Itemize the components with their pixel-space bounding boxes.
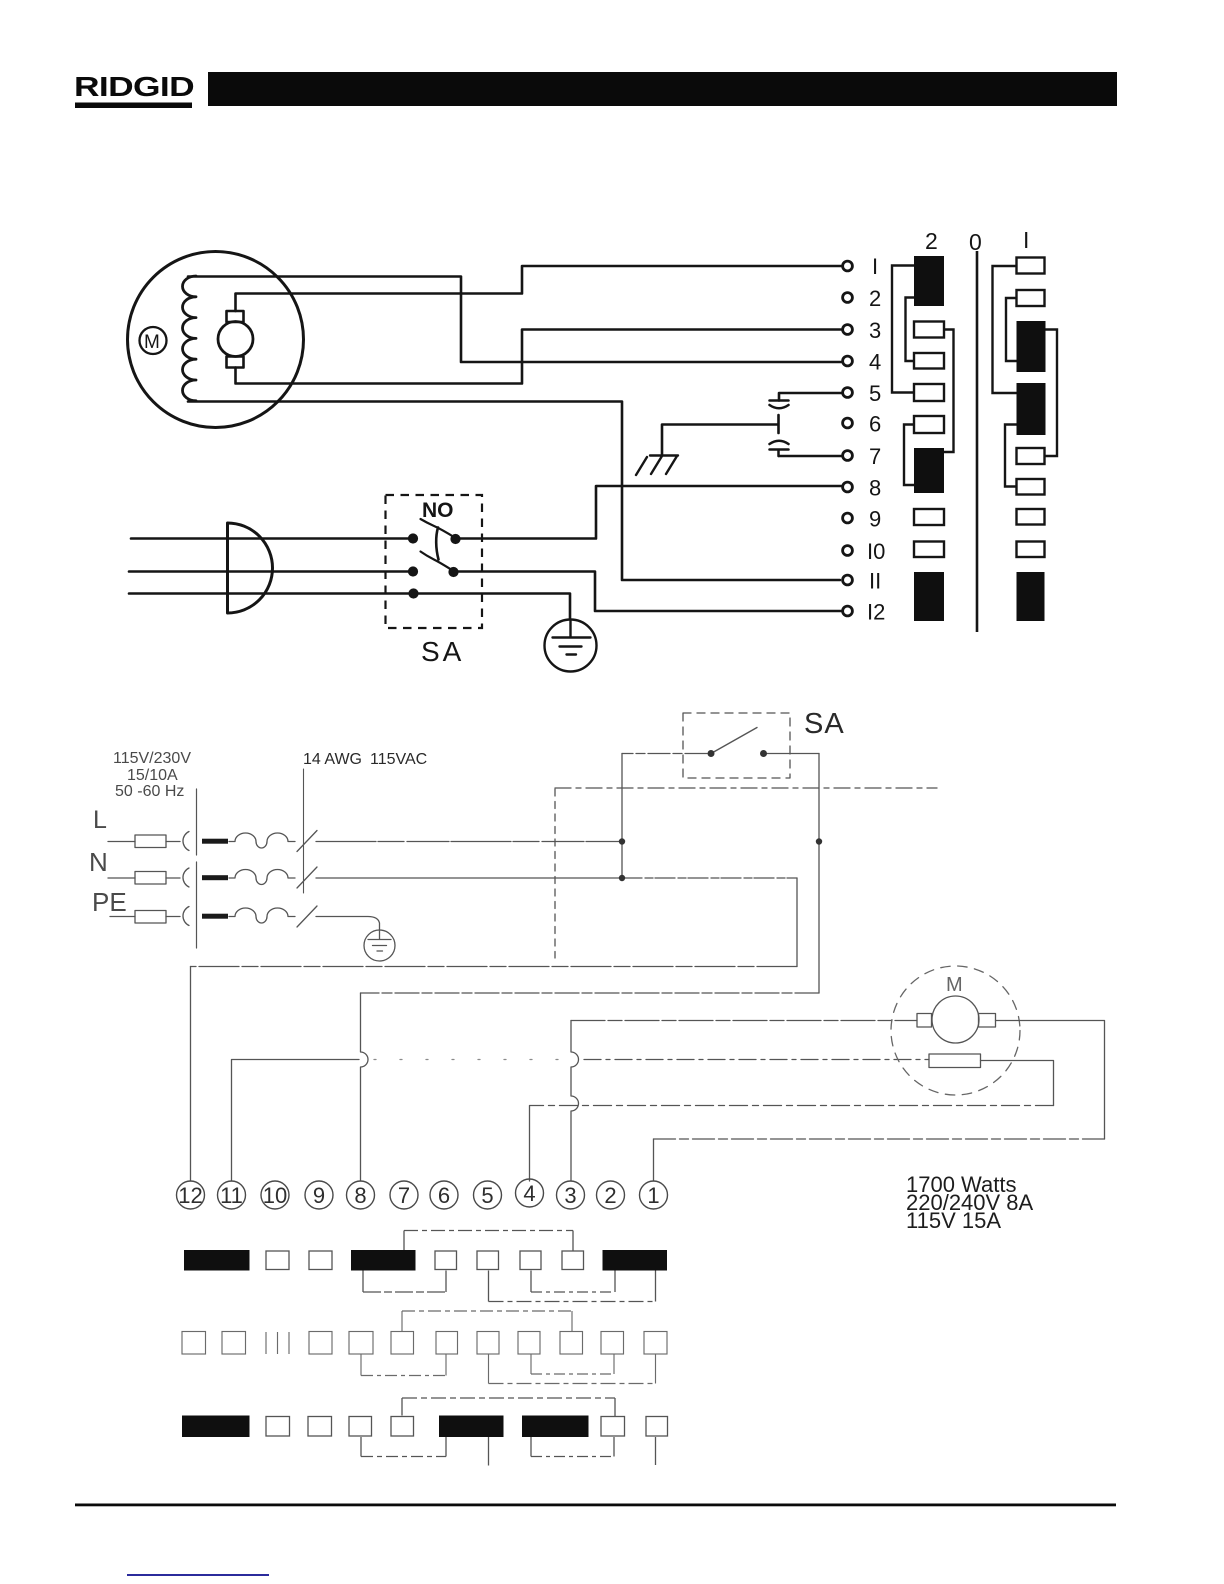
switch pole1 contacts	[409, 535, 417, 543]
svg-text:115V 15A: 115V 15A	[906, 1208, 1001, 1233]
cord coil L	[229, 833, 295, 848]
SA box lower dashed	[683, 713, 790, 778]
terminal point 11	[843, 575, 853, 585]
block2 pad 3	[914, 322, 944, 338]
svg-text:II: II	[869, 569, 881, 594]
svg-text:14 AWG: 14 AWG	[303, 751, 362, 768]
svg-text:8: 8	[869, 476, 881, 501]
svg-text:11: 11	[220, 1183, 243, 1208]
block2 pad 6	[914, 416, 944, 433]
rowA pad 4	[520, 1251, 541, 1270]
rowB jumper 4to2	[531, 1354, 614, 1374]
terminal point 2	[843, 293, 853, 303]
rowA jumper 7to3 top	[404, 1231, 573, 1252]
rowA jumper 4to2	[531, 1271, 615, 1293]
wire PE to earth	[129, 594, 570, 620]
svg-text:M: M	[946, 974, 963, 996]
svg-text:M: M	[144, 332, 160, 353]
brush left lower	[917, 1014, 932, 1028]
fuse L	[108, 841, 135, 843]
enclosure dash vertical	[554, 789, 556, 958]
svg-text:4: 4	[523, 1181, 535, 1206]
circle 12	[177, 1181, 205, 1209]
svg-text:PE: PE	[92, 887, 127, 917]
TERMINAL STRIP ROW C	[182, 1416, 668, 1438]
wire capacitor C2 to terminal 7	[779, 455, 841, 458]
header bar	[208, 72, 1117, 106]
SA output vertical	[818, 754, 820, 994]
rowC pad 8	[349, 1417, 372, 1437]
wire loop to circle1	[654, 1138, 1105, 1140]
UPPER DIAGRAM	[128, 252, 843, 672]
block2 jumper 3-7	[944, 330, 954, 453]
block1 pads 3-4 black	[1017, 321, 1046, 372]
block2 pad 9	[914, 509, 944, 525]
capacitor C1	[770, 401, 789, 409]
terminal point 5	[843, 388, 853, 398]
svg-text:2: 2	[604, 1183, 616, 1208]
block1 pad 10	[1017, 542, 1045, 558]
plug body	[228, 523, 273, 613]
svg-text:I0: I0	[867, 539, 885, 564]
rowA jumper 8to6	[363, 1271, 446, 1293]
wire L into switch	[131, 537, 411, 540]
rowB jumper 5to1	[489, 1354, 656, 1384]
block2 jumper 6-8	[904, 425, 914, 486]
slash PE	[297, 906, 317, 927]
brush bottom	[227, 357, 244, 368]
armature circle	[218, 322, 253, 357]
svg-text:12: 12	[178, 1183, 202, 1208]
socket separation line	[196, 789, 198, 948]
rowC stub 5	[488, 1437, 490, 1466]
svg-text:I: I	[872, 254, 878, 279]
RIGHT CONNECTOR COLUMN (1)	[993, 258, 1058, 622]
svg-text:5: 5	[481, 1183, 493, 1208]
armature lower	[932, 996, 979, 1043]
RIDGID logo	[74, 71, 194, 108]
circle 10	[261, 1181, 289, 1209]
motor M label circle	[140, 327, 167, 354]
terminal numbers	[867, 254, 885, 625]
svg-text:SA: SA	[804, 708, 845, 740]
svg-text:1: 1	[647, 1183, 659, 1208]
cord coil PE	[229, 908, 295, 923]
switch SA dashed box	[386, 495, 483, 628]
switch pole1 blade	[421, 519, 456, 538]
SA switch blade lower	[711, 728, 757, 754]
terminal point 6	[843, 418, 853, 428]
choke left with hop	[361, 993, 369, 1181]
wire field loop bottom	[530, 1105, 1054, 1107]
rowA pads 12-11 black	[184, 1250, 250, 1271]
circle 4	[516, 1179, 544, 1207]
fuse N	[108, 877, 135, 879]
brush right lower	[979, 1014, 996, 1028]
SA contact left lower	[708, 750, 715, 757]
plug pin L	[202, 839, 228, 844]
wire coil-bottom to terminal 11	[188, 402, 840, 581]
svg-text:NO: NO	[422, 499, 454, 522]
block1 pads 5-6 black	[1017, 383, 1046, 435]
SA wire left	[622, 753, 707, 755]
cable marker line	[303, 769, 305, 893]
circle 1	[640, 1181, 668, 1209]
earth ground circle	[545, 620, 597, 672]
bottom rule	[75, 1504, 1116, 1507]
svg-text:RIDGID: RIDGID	[74, 71, 194, 102]
SA wire right	[764, 753, 820, 755]
rowC pads 6-5 black	[439, 1416, 504, 1438]
terminal dots column	[843, 261, 853, 616]
wire N loop bottom	[191, 966, 798, 968]
rowC jumper 4to2	[531, 1437, 614, 1457]
TERMINAL STRIP ROW A	[184, 1250, 667, 1271]
svg-text:6: 6	[869, 412, 881, 437]
svg-text:L: L	[93, 806, 107, 834]
terminal point 9	[843, 513, 853, 523]
wire field feed faint	[374, 1059, 560, 1061]
earth ground symbol	[553, 621, 591, 655]
rowB jumper 8to6	[361, 1354, 446, 1376]
svg-text:SA: SA	[421, 636, 464, 667]
circle 7	[390, 1181, 418, 1209]
junction dot N	[619, 875, 625, 881]
svg-text:6: 6	[438, 1183, 450, 1208]
rowB pad 11	[222, 1332, 246, 1355]
brush top	[227, 311, 244, 322]
circle 5	[474, 1181, 502, 1209]
switch pole2 blade	[421, 552, 454, 572]
socket contact N	[183, 868, 189, 887]
junction dot L-out	[816, 838, 822, 844]
wire SA to choke top	[361, 992, 820, 994]
motor M outer circle	[128, 252, 304, 428]
block2 pads 7-8 black	[914, 448, 944, 493]
block1 pad 7	[1017, 448, 1045, 464]
wire N loop right	[796, 878, 798, 967]
wire circle12 riser	[190, 967, 192, 1182]
rowB pad 2	[601, 1332, 624, 1355]
rowB pad 9	[309, 1332, 332, 1355]
rowA pads 2-1 black	[603, 1250, 668, 1271]
rowB pad 8	[349, 1332, 373, 1355]
rowB pad 3	[560, 1332, 583, 1355]
rowA jumper 5to1	[489, 1271, 656, 1302]
divider line 0	[976, 251, 979, 632]
footer blue line	[127, 1574, 269, 1576]
svg-text:50 -60 Hz: 50 -60 Hz	[115, 783, 184, 800]
switch pole2 contacts	[409, 568, 417, 576]
rowC jumper 7to2 top	[402, 1398, 615, 1417]
svg-text:0: 0	[969, 229, 982, 255]
svg-text:115VAC: 115VAC	[370, 751, 427, 768]
wire coil-top to terminal 4	[188, 277, 841, 363]
LEFT CONNECTOR COLUMN (2)	[892, 256, 954, 621]
terminal point 7	[843, 451, 853, 461]
block1 pads 11-12 black	[1017, 572, 1045, 621]
circle 9	[305, 1181, 333, 1209]
wire L run	[316, 841, 621, 843]
socket contact L	[183, 832, 189, 851]
rowB pad 5	[477, 1332, 499, 1355]
earth circle lower	[364, 930, 395, 961]
TERMINAL STRIP ROW B	[182, 1311, 667, 1384]
SA feed vertical	[621, 754, 623, 880]
circle 6	[430, 1181, 458, 1209]
circle 3	[557, 1181, 585, 1209]
svg-text:2: 2	[925, 228, 938, 254]
svg-text:9: 9	[313, 1183, 325, 1208]
block1 jumper 1-5	[993, 266, 1017, 393]
SA contact right lower	[760, 750, 767, 757]
rowA pad 10	[266, 1251, 289, 1270]
wire PE run	[316, 917, 380, 931]
svg-text:I2: I2	[867, 600, 885, 625]
switch link	[436, 528, 438, 560]
rowA pad 3	[562, 1251, 584, 1270]
rowB pad 10 degraded	[266, 1332, 289, 1354]
plug pin PE	[202, 914, 228, 919]
block1 jumper 2-3	[1006, 298, 1017, 361]
block1 jumper 5-8	[1005, 425, 1017, 487]
block2 pads 1-2 black	[914, 256, 944, 306]
LOWER DIAGRAM	[89, 708, 1034, 1233]
svg-text:7: 7	[398, 1183, 410, 1208]
circle 2	[597, 1181, 625, 1209]
block2 pad 10	[914, 542, 944, 558]
slash N	[297, 867, 317, 888]
block2 pad 4	[914, 353, 944, 369]
terminal point 4	[843, 356, 853, 366]
block2 pad 5	[914, 384, 944, 401]
choke right with hops	[571, 1021, 579, 1182]
switch poles	[409, 519, 460, 598]
capacitor C2	[770, 441, 789, 456]
svg-text:9: 9	[869, 507, 881, 532]
wire capacitor junction to chassis	[662, 415, 779, 454]
earth symbol lower	[368, 930, 391, 951]
rowC pad 9	[308, 1417, 332, 1437]
block2 jumper 2-4	[906, 298, 915, 362]
rowA pads 8-7 black	[351, 1250, 416, 1271]
svg-text:4: 4	[869, 350, 881, 375]
svg-text:5: 5	[869, 381, 881, 406]
svg-text:3: 3	[869, 318, 881, 343]
slash L	[297, 831, 317, 852]
rowB pad 6	[436, 1332, 458, 1355]
rowC pads 4-3 black	[522, 1416, 589, 1438]
wire choke to brush	[571, 1020, 917, 1022]
rowA pad 6	[435, 1251, 457, 1270]
svg-text:8: 8	[354, 1183, 366, 1208]
block1 jumper 3-7	[1045, 330, 1058, 457]
rowC pad 1	[646, 1417, 668, 1437]
rowB pad 1	[644, 1332, 667, 1355]
svg-text:I: I	[1023, 227, 1029, 253]
wire field right	[981, 1061, 1054, 1106]
terminal point 12	[843, 606, 853, 616]
wire armature-bottom to terminal 3	[236, 330, 842, 384]
rowB jumper 7to3 top	[402, 1311, 572, 1332]
block1 pad 8	[1017, 479, 1045, 495]
wire switch pole2 to terminal 12	[455, 572, 842, 612]
block1 pad 2	[1017, 290, 1045, 306]
junction dot L-SA	[619, 838, 625, 844]
motor circle lower dashed	[891, 966, 1020, 1095]
block2 pads 11-12 black	[914, 572, 944, 621]
rowA pad 9	[309, 1251, 332, 1270]
wire terminal 5 to capacitor	[779, 393, 841, 401]
svg-text:15/10A: 15/10A	[127, 767, 178, 784]
field winding lower	[929, 1054, 981, 1068]
wire circle1 riser	[653, 1139, 655, 1181]
enclosure dash horizontal	[555, 787, 937, 789]
rowC pads 12-11 black	[182, 1416, 250, 1438]
circle 11	[218, 1181, 246, 1209]
rowC jumper 8to6	[361, 1437, 446, 1457]
terminal point 10	[843, 546, 853, 556]
cord coil N	[229, 870, 295, 885]
svg-text:3: 3	[564, 1183, 576, 1208]
field coil winding	[183, 276, 197, 401]
wire N into switch	[129, 570, 411, 573]
svg-text:N: N	[89, 847, 108, 877]
wire circle11 riser	[232, 1060, 360, 1182]
rowB pad 4	[518, 1332, 540, 1355]
numbered terminals row	[177, 1179, 668, 1209]
wire circle4 riser	[529, 1106, 531, 1182]
rowB pad 7	[391, 1332, 414, 1355]
chassis ground	[636, 456, 678, 476]
svg-text:115V/230V: 115V/230V	[113, 750, 191, 767]
plug pin N	[202, 875, 228, 880]
rowC pad 7	[391, 1417, 414, 1437]
svg-text:7: 7	[869, 444, 881, 469]
block1 pad 1	[1017, 258, 1045, 274]
wire armature-top to terminal 1	[236, 266, 842, 311]
terminal point 8	[843, 482, 853, 492]
rowA pad 5	[477, 1251, 499, 1270]
terminal point 1	[843, 261, 853, 271]
block1 pad 9	[1017, 509, 1045, 525]
circle 8	[347, 1181, 375, 1209]
rowB pad 12	[182, 1332, 206, 1355]
junction PE in box	[410, 590, 418, 598]
rowC pad 10	[266, 1417, 290, 1437]
socket contact PE	[183, 907, 189, 926]
rowC pad 2	[601, 1417, 625, 1437]
terminal point 3	[843, 325, 853, 335]
wire N run	[316, 877, 622, 879]
wire brush right loop	[996, 1021, 1105, 1140]
rowC stub 1	[655, 1437, 657, 1465]
svg-text:10: 10	[263, 1183, 287, 1208]
wire switch pole1 to terminal 8	[457, 486, 841, 539]
block2 jumper 1-5	[892, 266, 914, 393]
svg-text:2: 2	[869, 286, 881, 311]
fuse PE	[110, 916, 135, 918]
